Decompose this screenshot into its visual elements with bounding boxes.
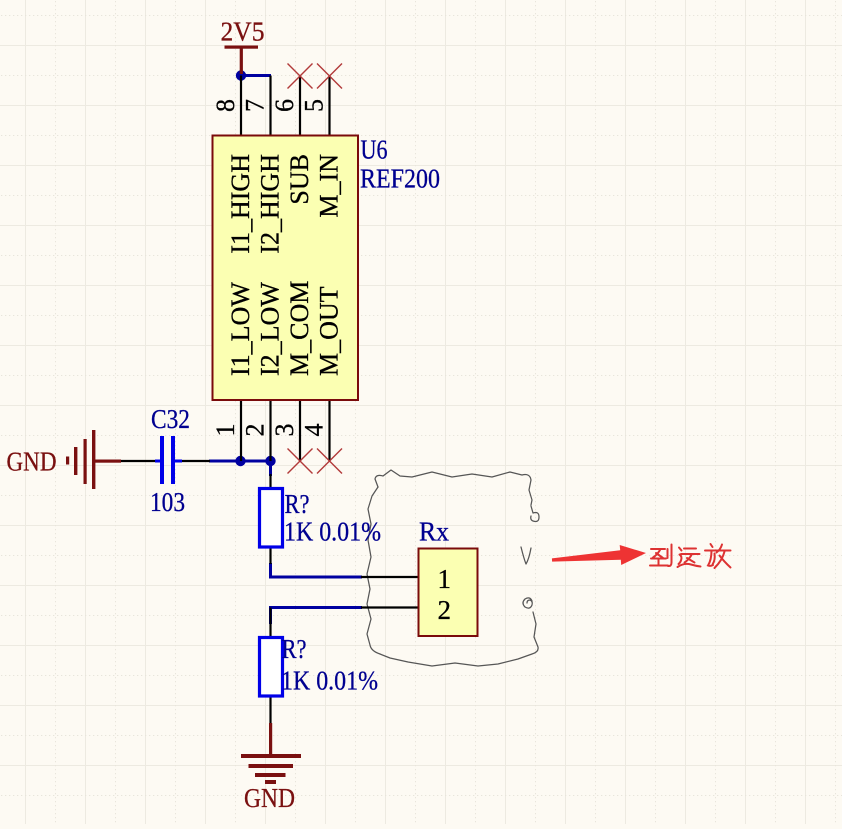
svg-text:103: 103 [150, 487, 185, 517]
svg-text:1K 0.01%: 1K 0.01% [284, 517, 381, 547]
svg-text:1K 0.01%: 1K 0.01% [281, 666, 378, 696]
svg-text:I2_LOW: I2_LOW [256, 282, 285, 376]
svg-text:1: 1 [211, 424, 240, 437]
svg-text:3: 3 [270, 424, 299, 437]
svg-text:4: 4 [300, 424, 329, 437]
svg-text:8: 8 [211, 99, 240, 112]
svg-text:I1_LOW: I1_LOW [226, 282, 255, 376]
svg-text:M_OUT: M_OUT [315, 286, 344, 376]
svg-text:R?: R? [285, 489, 310, 519]
svg-text:M_COM: M_COM [285, 281, 314, 376]
svg-text:5: 5 [300, 99, 329, 112]
svg-text:1: 1 [438, 564, 452, 594]
svg-text:U6: U6 [361, 135, 388, 165]
svg-text:I2_HIGH: I2_HIGH [256, 154, 285, 254]
svg-text:2: 2 [241, 424, 270, 437]
svg-text:7: 7 [241, 99, 270, 112]
svg-text:Rx: Rx [419, 517, 449, 547]
svg-text:M_IN: M_IN [315, 154, 344, 218]
svg-text:2: 2 [438, 595, 452, 625]
svg-text:GND: GND [244, 783, 295, 813]
svg-text:SUB: SUB [285, 154, 314, 205]
svg-text:REF200: REF200 [360, 164, 440, 194]
svg-text:C32: C32 [151, 404, 190, 434]
svg-text:I1_HIGH: I1_HIGH [226, 154, 255, 254]
svg-text:2V5: 2V5 [221, 17, 265, 47]
svg-text:R?: R? [282, 634, 307, 664]
svg-text:6: 6 [270, 99, 299, 112]
svg-text:GND: GND [7, 447, 57, 477]
